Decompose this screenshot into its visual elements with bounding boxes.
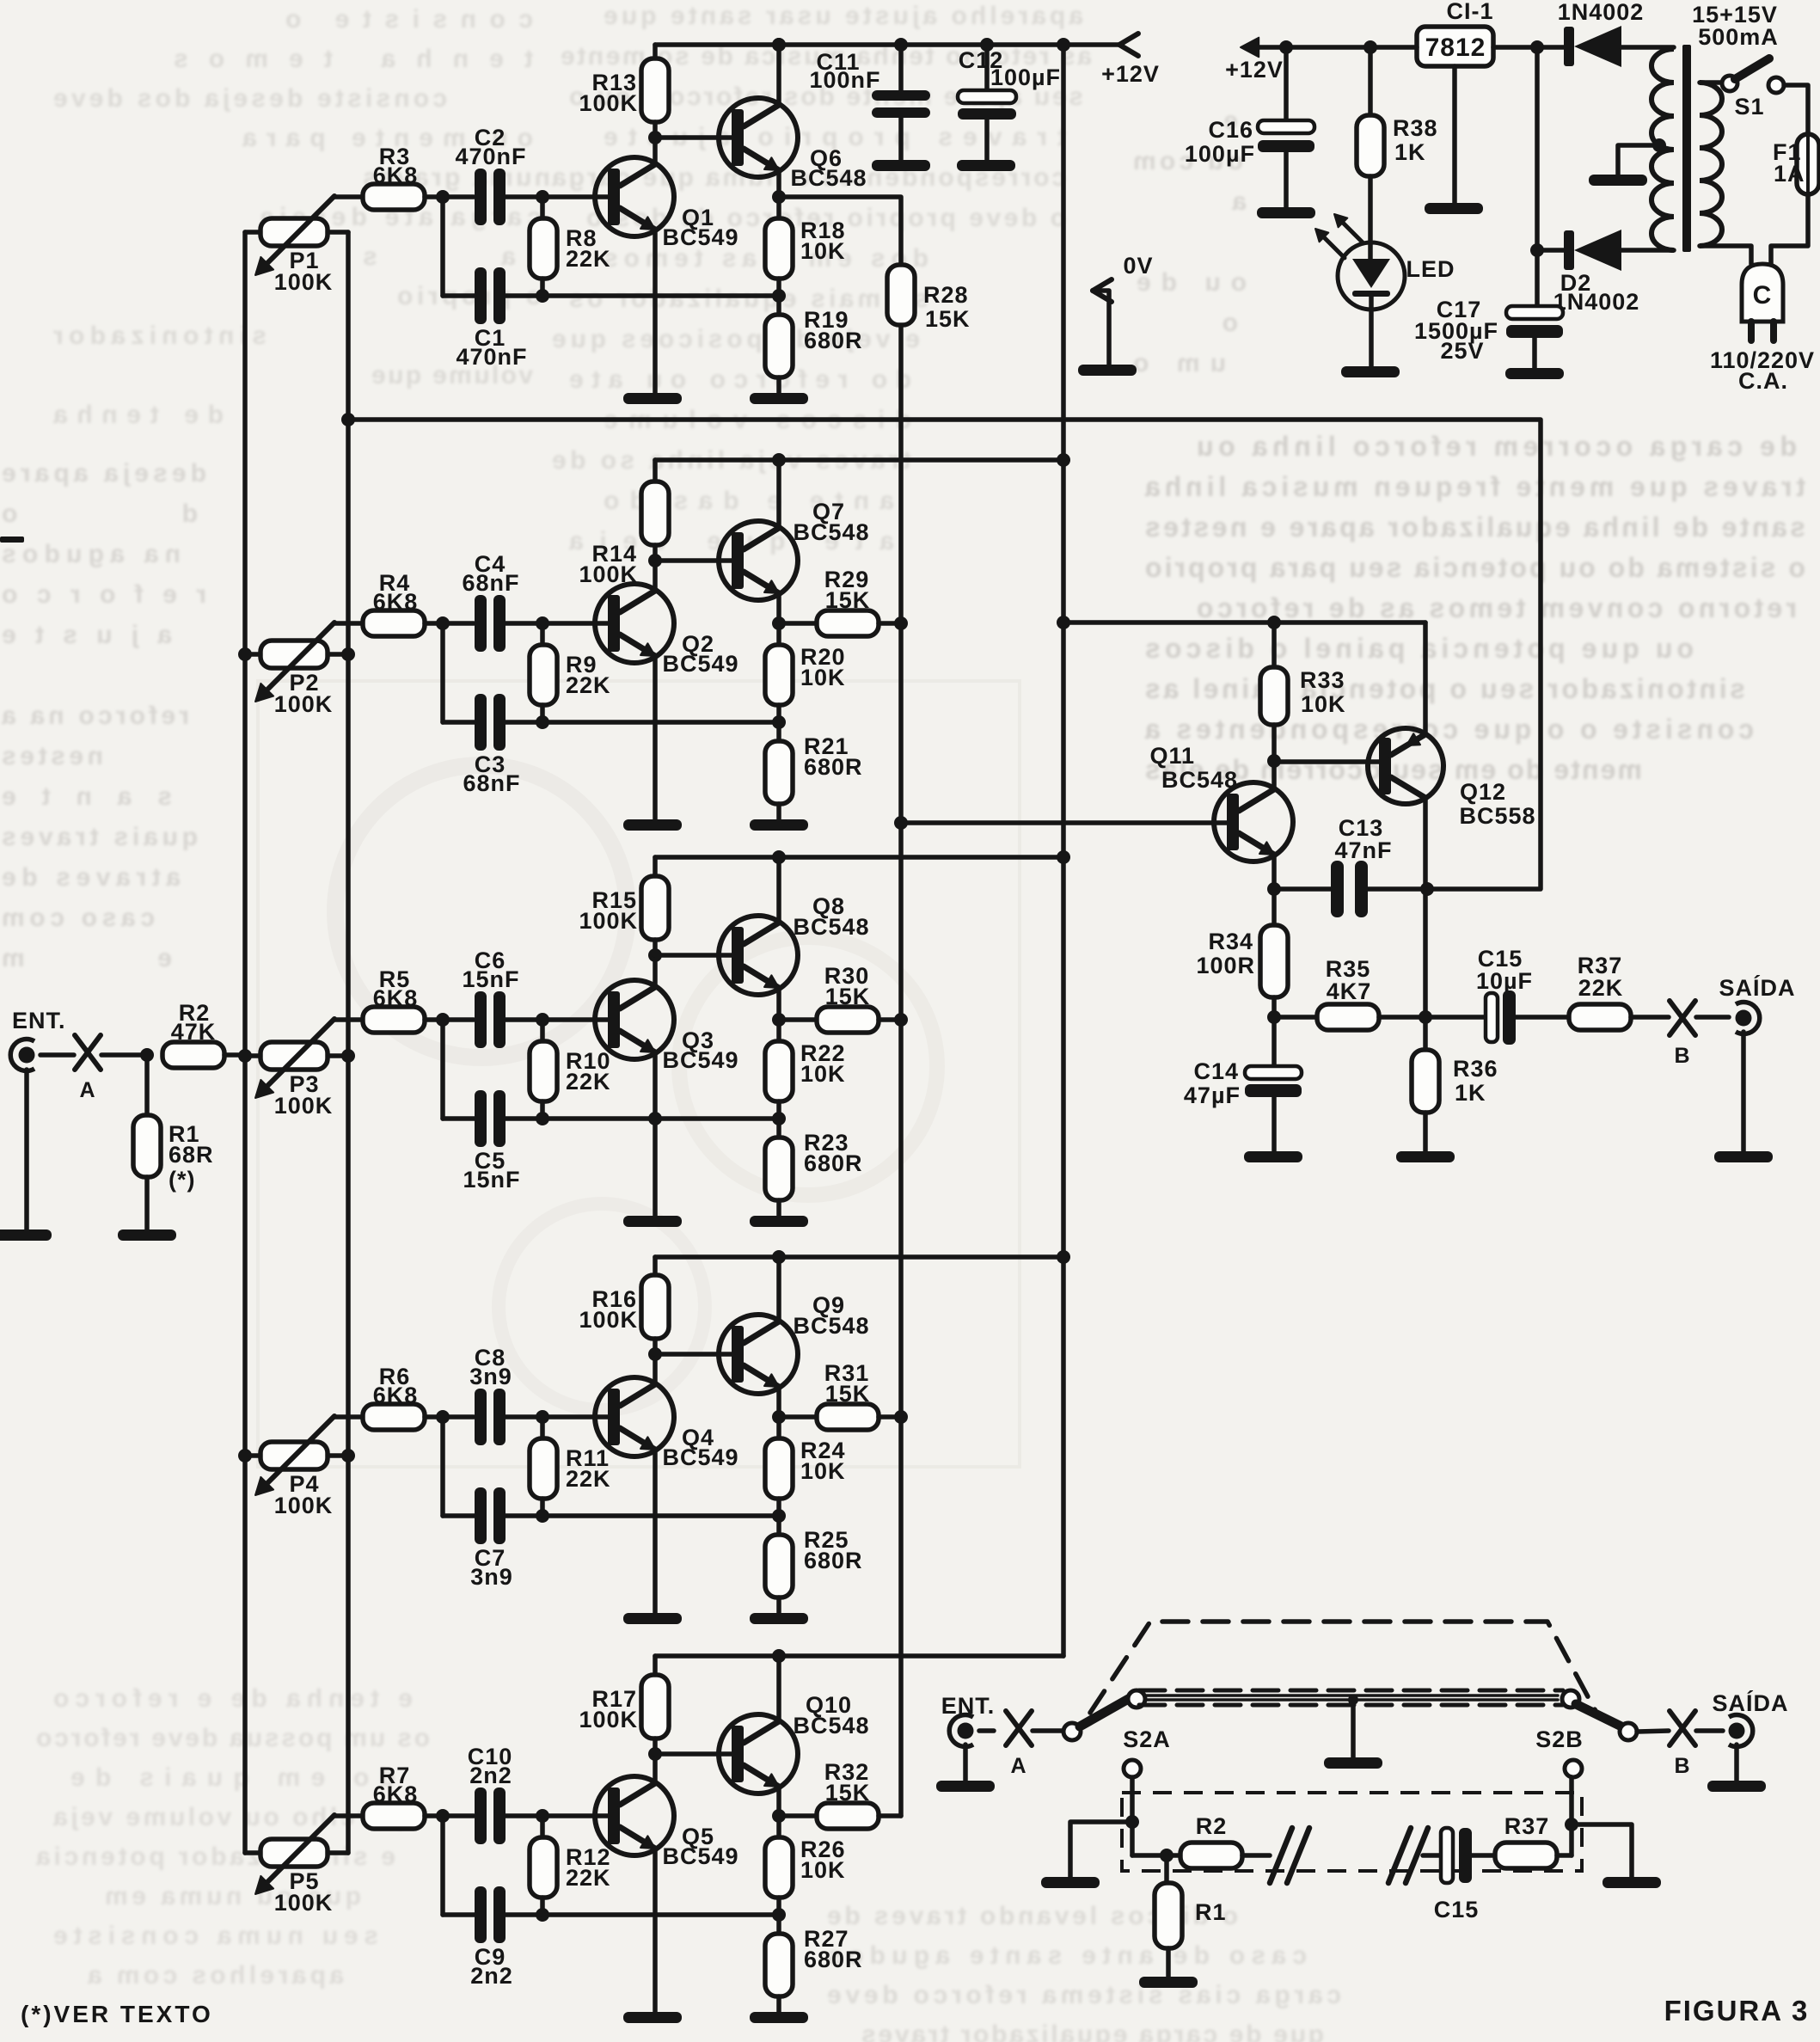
wire right ground branch [1572, 1824, 1632, 1877]
transistor Q4 BC549 [595, 1377, 674, 1456]
svg-text:100K: 100K [274, 1890, 334, 1916]
svg-text:o: o [1221, 309, 1238, 337]
svg-text:100K: 100K [579, 1707, 638, 1732]
node C/R junction bottom row 4 [536, 1509, 549, 1523]
dashed board outline [1122, 1793, 1582, 1871]
label R10 22K [566, 1048, 611, 1095]
svg-text:(*): (*) [169, 1167, 196, 1193]
resistor R23 680R [765, 1119, 793, 1216]
resistor R11 22K [530, 1417, 557, 1516]
label R27 680R [804, 1926, 863, 1972]
svg-text:quais traves: quais traves [0, 823, 198, 851]
node C13 / Q12 collector [1420, 882, 1434, 896]
label B (bypass) [1674, 1754, 1690, 1778]
label R34 100R [1196, 929, 1255, 978]
potentiometer P4 [245, 1416, 363, 1495]
resistor R37 22K [1569, 1004, 1669, 1030]
wire Q11 collector [1272, 761, 1277, 789]
svg-text:A: A [79, 1078, 95, 1102]
label R19 680R [804, 307, 863, 353]
node collector Q4 [648, 1347, 662, 1361]
node C/R junction bottom row 5 [536, 1908, 549, 1922]
svg-text:C: C [1753, 281, 1773, 310]
label P3 100K [274, 1071, 334, 1119]
svg-text:680R: 680R [804, 1548, 863, 1573]
ground R21 [750, 819, 808, 831]
label LED [1406, 256, 1455, 282]
svg-text:(*)VER TEXTO: (*)VER TEXTO [21, 2001, 213, 2027]
label SAIDA (bypass) [1712, 1689, 1788, 1716]
ground right branch [1602, 1877, 1661, 1888]
label R35 4K7 [1326, 956, 1372, 1004]
ground 0V terminal [1078, 365, 1137, 376]
fuse F1 1A [1797, 134, 1819, 194]
resistor R33 10K [1260, 622, 1288, 761]
svg-text:C15: C15 [1434, 1897, 1480, 1922]
label R38 1K [1393, 115, 1438, 165]
resistor R34 100R [1260, 889, 1288, 1017]
svg-text:10K: 10K [800, 1857, 846, 1883]
input jack ENT. [10, 1039, 74, 1071]
capacitor C1 470nF [443, 267, 542, 324]
transistor Q12 BC558 [1368, 728, 1443, 804]
svg-text:C.A.: C.A. [1738, 368, 1788, 394]
svg-text:FIGURA 3: FIGURA 3 [1664, 1995, 1810, 2027]
label Q5 BC549 [662, 1824, 738, 1869]
node C/R junction top row 4 [536, 1410, 549, 1424]
ground coupling mid [1324, 1695, 1382, 1769]
svg-text:100K: 100K [579, 90, 638, 116]
ground C11 [872, 160, 930, 171]
label C10 [468, 1744, 513, 1788]
ground C14 [1244, 1151, 1302, 1162]
wire 7812 input [1493, 45, 1570, 50]
wire base Q9 [655, 1352, 732, 1357]
label R30 15K [824, 963, 871, 1009]
label D1 1N4002 [1558, 0, 1645, 25]
resistor R1 (bypass) [1155, 1855, 1182, 1977]
diode D2 1N4002 [1537, 230, 1674, 271]
svg-text:500mA: 500mA [1698, 24, 1779, 50]
potentiometer P2 [245, 622, 363, 702]
svg-text:100K: 100K [579, 561, 638, 587]
svg-text:680R: 680R [804, 1150, 863, 1176]
wire feedback row 2 [542, 720, 779, 725]
resistor R16 100K [641, 1257, 669, 1354]
ground R1 [118, 1229, 176, 1241]
node rail row 4 on +12V vertical [1057, 1250, 1070, 1264]
label R8 22K [566, 225, 611, 272]
node S2B ground branch [1565, 1818, 1578, 1831]
label Q1 BC549 [662, 205, 738, 250]
label +12V supply [1225, 57, 1284, 83]
resistor R25 680R [765, 1516, 793, 1613]
svg-text:S2B: S2B [1535, 1726, 1584, 1752]
wire left ground branch [1070, 1822, 1132, 1877]
resistor R8 22K [530, 197, 557, 296]
svg-text:15K: 15K [825, 1381, 871, 1407]
node feedback takeoff on bus [341, 413, 355, 426]
resistor R7 6K8 [363, 1803, 474, 1829]
svg-text:7812: 7812 [1425, 34, 1486, 62]
IC CI-1 7812 regulator [1417, 27, 1493, 66]
resistor R36 1K [1412, 1017, 1439, 1151]
label C16 100uF [1185, 117, 1255, 167]
wire Q6 emitter [776, 170, 781, 197]
label R9 22K [566, 652, 611, 698]
svg-text:15nF: 15nF [463, 1167, 520, 1193]
wire Q12 base [1274, 759, 1379, 764]
svg-text:1K: 1K [1394, 139, 1426, 165]
svg-text:100µF: 100µF [1185, 141, 1255, 167]
node Q7 emitter [772, 616, 786, 630]
svg-text:68R: 68R [169, 1142, 214, 1168]
node Q6 collector on rail [772, 38, 786, 52]
node 7812 input [1530, 40, 1544, 54]
capacitor C16 100uF [1258, 47, 1314, 207]
wire Q6 collector [776, 45, 781, 105]
resistor R35 4K7 [1274, 1004, 1425, 1030]
label Q12 BC558 [1459, 779, 1535, 829]
label R31 15K [824, 1360, 871, 1407]
potentiometer P3 [245, 1019, 363, 1098]
label C8 [469, 1345, 512, 1389]
switch S2A [1063, 1690, 1145, 1777]
svg-text:22K: 22K [1578, 975, 1624, 1001]
svg-text:nestes: nestes [0, 742, 103, 770]
svg-text:BC549: BC549 [662, 651, 738, 677]
resistor R29 15K [779, 610, 901, 636]
node pot P3 right on feedback bus [341, 1049, 355, 1063]
node rail row 3 on +12V vertical [1057, 850, 1070, 864]
transistor Q10 BC548 [719, 1714, 798, 1794]
svg-text:S2A: S2A [1123, 1726, 1171, 1752]
node collector Q1 [648, 131, 662, 144]
label R12 22K [566, 1844, 611, 1891]
resistor R12 22K [530, 1816, 557, 1915]
resistor R19 680R [765, 296, 793, 393]
label C11 100nF [809, 49, 880, 93]
node feedback row 5 [772, 1908, 786, 1922]
svg-text:BC549: BC549 [662, 1047, 738, 1073]
wire +12V top rail [655, 42, 1119, 47]
wire Q7 emitter [776, 593, 781, 623]
svg-text:Q11: Q11 [1149, 743, 1195, 769]
wire base Q2 [542, 621, 608, 626]
capacitor C11 100nF [872, 45, 930, 160]
label T1 15+15V 500mA [1692, 2, 1779, 50]
svg-text:R38: R38 [1393, 115, 1438, 141]
ground SAIDA jack (bypass) [1707, 1745, 1766, 1792]
node R7/C junction [436, 1809, 450, 1915]
svg-text:15K: 15K [825, 984, 871, 1009]
label R14 100K [579, 541, 638, 587]
svg-text:carga cias sistema reforco dev: carga cias sistema reforco deve [825, 1981, 1341, 2009]
wire Q4 emitter [653, 1450, 658, 1613]
svg-text:15K: 15K [925, 306, 971, 332]
label C15 10uF [1476, 946, 1533, 994]
svg-text:R2: R2 [1196, 1813, 1228, 1839]
svg-text:3n9: 3n9 [469, 1364, 512, 1389]
output jack SAIDA [1736, 1003, 1760, 1034]
capacitor C12 100uF [958, 45, 1016, 160]
svg-text:1N4002: 1N4002 [1553, 289, 1640, 315]
node C/R junction bottom row 2 [536, 715, 549, 729]
svg-text:um o: um o [1131, 349, 1226, 377]
node feedback row 3 [772, 1112, 786, 1125]
resistor R15 100K [641, 857, 669, 955]
svg-text:BC549: BC549 [662, 1843, 738, 1869]
ground ENT jack (bypass) [936, 1745, 995, 1792]
svg-text:+12V: +12V [1101, 61, 1160, 87]
output jack SAIDA (bypass) [1729, 1715, 1753, 1747]
AC plug [1742, 264, 1783, 340]
label C12 100uF [959, 47, 1061, 90]
svg-text:1N4002: 1N4002 [1558, 0, 1645, 25]
label R33 10K [1300, 667, 1346, 717]
svg-text:R36: R36 [1453, 1056, 1498, 1082]
label R1 68R (*) [169, 1121, 214, 1193]
ground Q5 emitter [623, 2012, 682, 2023]
node input/R1 [140, 1048, 154, 1062]
label Q3 BC549 [662, 1027, 738, 1073]
resistor R26 10K [765, 1816, 793, 1915]
label R28 15K [923, 282, 971, 332]
svg-text:4K7: 4K7 [1327, 978, 1372, 1004]
svg-text:BC549: BC549 [662, 224, 738, 250]
label R23 680R [804, 1130, 863, 1176]
resistor R1 68R [133, 1055, 161, 1229]
svg-text:na agudos: na agudos [0, 540, 181, 568]
svg-text:10K: 10K [800, 665, 846, 690]
wire S1 to fuse [1784, 85, 1808, 134]
svg-text:+12V: +12V [1225, 57, 1284, 83]
svg-text:retorno convem temos as de ref: retorno convem temos as de reforco [1195, 592, 1797, 623]
node R3/C junction [436, 190, 450, 296]
svg-text:47K: 47K [171, 1019, 217, 1045]
svg-text:2n2: 2n2 [469, 1763, 512, 1788]
wire Q2 collector [653, 561, 658, 591]
label ENT. (bypass) [941, 1693, 996, 1719]
svg-text:10K: 10K [1301, 691, 1346, 717]
ground R1 (bypass) [1139, 1977, 1198, 1988]
resistor R6 6K8 [363, 1404, 474, 1430]
wire base Q5 [542, 1813, 608, 1818]
svg-text:BC548: BC548 [790, 165, 867, 191]
svg-text:R33: R33 [1300, 667, 1345, 693]
label R11 22K [566, 1445, 611, 1492]
svg-text:100K: 100K [274, 1493, 334, 1518]
svg-text:do reforco ou ate: do reforco ou ate [567, 365, 911, 394]
svg-text:os um possua deve reforco: os um possua deve reforco [34, 1724, 430, 1752]
svg-text:100µF: 100µF [990, 64, 1061, 90]
node feedback row 1 [772, 289, 786, 303]
svg-text:B: B [1674, 1044, 1690, 1068]
node R30 on summing bus [894, 1013, 908, 1027]
wire base Q7 [655, 558, 732, 563]
wire break marks right [1388, 1828, 1428, 1883]
svg-text:100nF: 100nF [809, 67, 880, 93]
svg-text:25V: 25V [1440, 338, 1484, 364]
svg-text:22K: 22K [566, 1865, 611, 1891]
svg-text:aparelhos com a: aparelhos com a [86, 1961, 344, 1990]
svg-text:10K: 10K [800, 238, 846, 264]
break point A (bypass) [1006, 1711, 1032, 1745]
wire +12V distribution vertical [1061, 45, 1066, 1656]
node R4/C junction [436, 616, 450, 722]
node pot P2 right on feedback bus [341, 647, 355, 661]
wire Q4 collector [653, 1354, 658, 1384]
wire summing bus vertical [898, 325, 904, 1816]
svg-text:470nF: 470nF [456, 344, 527, 370]
resistor R10 22K [530, 1020, 557, 1119]
mechanical coupling dashed link [1090, 1622, 1596, 1713]
svg-text:15K: 15K [825, 1780, 871, 1806]
node bus tap Q11 [894, 816, 908, 830]
label Q8 BC548 [793, 893, 869, 940]
wire S2B to B [1637, 1731, 1669, 1732]
node Q10 emitter [772, 1809, 786, 1823]
label R7 6K8 [373, 1763, 419, 1807]
wire Q12 collector [1423, 799, 1428, 1017]
label R5 6K8 [373, 966, 419, 1011]
node Q6 emitter [772, 190, 786, 204]
potentiometer P1 [245, 196, 363, 275]
wire Q10 emitter [776, 1787, 781, 1816]
label C14 47uF [1184, 1058, 1241, 1108]
svg-text:22K: 22K [566, 672, 611, 698]
label C4 [462, 551, 519, 596]
label Q11 BC548 [1149, 743, 1238, 793]
label R32 15K [824, 1759, 871, 1806]
resistor R20 10K [765, 623, 793, 722]
wire +12V rail row 5 [655, 1653, 1063, 1659]
label R29 15K [824, 567, 871, 613]
label R21 680R [804, 733, 863, 780]
node Q8 collector on rail [772, 850, 786, 864]
label P2 100K [274, 670, 334, 717]
label R26 10K [800, 1837, 846, 1883]
capacitor C17 1500uF 25V [1506, 250, 1563, 368]
svg-text:15K: 15K [825, 587, 871, 613]
resistor R4 6K8 [363, 610, 474, 636]
label R13 100K [579, 70, 638, 116]
svg-text:traves que mente frequen music: traves que mente frequen musica linha [1143, 471, 1805, 502]
node pot P3 left on input bus [238, 1049, 252, 1063]
capacitor C10 2n2 [475, 1788, 542, 1844]
svg-text:BC548: BC548 [793, 914, 869, 940]
label FIGURA 3 [1664, 1995, 1810, 2027]
switch S1 [1700, 58, 1784, 93]
label A [79, 1078, 95, 1102]
resistor R21 680R [765, 722, 793, 819]
label +12V (rail) [1101, 61, 1160, 87]
svg-text:680R: 680R [804, 754, 863, 780]
terminal +12V arrow (rail) [1119, 34, 1138, 56]
node R31 on summing bus [894, 1410, 908, 1424]
svg-text:47µF: 47µF [1184, 1082, 1241, 1108]
wire +12V branch to buffer [1063, 620, 1425, 625]
wire R37 to S2B lower [1557, 1777, 1572, 1855]
node pot P4 left on input bus [238, 1449, 252, 1463]
svg-text:100K: 100K [274, 269, 334, 295]
label D2 1N4002 [1553, 270, 1640, 315]
wire summing bus to Q11 base [901, 820, 1227, 825]
svg-text:e veja de posicoes que: e veja de posicoes que [550, 325, 920, 353]
node C11 on rail [894, 38, 908, 52]
svg-text:e sintonizador potencia: e sintonizador potencia [34, 1843, 395, 1871]
ground left branch [1041, 1877, 1100, 1888]
label R2 47K [171, 1000, 217, 1045]
wire feedback row 4 [542, 1513, 779, 1518]
transistor Q7 BC548 [719, 521, 798, 600]
svg-text:470nF: 470nF [455, 144, 526, 169]
resistor R31 15K [779, 1404, 901, 1430]
potentiometer P5 [245, 1815, 363, 1894]
svg-text:S1: S1 [1734, 94, 1764, 120]
node collector Q3 [648, 948, 662, 962]
svg-text:R1: R1 [1195, 1899, 1227, 1925]
label R37 (bypass) [1504, 1813, 1550, 1839]
label C2 [455, 125, 526, 169]
wire Q12 emitter to +12V [1423, 622, 1428, 733]
capacitor C6 15nF [475, 991, 542, 1048]
switch S2B [1562, 1690, 1637, 1777]
resistor R5 6K8 [363, 1007, 474, 1033]
wire input bus (left vertical bus line) [242, 232, 248, 1853]
break point A [75, 1035, 101, 1070]
svg-text:680R: 680R [804, 1947, 863, 1972]
node feedback row 4 [772, 1509, 786, 1523]
terminal 0V [1093, 279, 1112, 365]
label C9 [470, 1944, 513, 1989]
label C5 [463, 1148, 520, 1193]
wire S2A lower to R2 [1132, 1777, 1180, 1855]
svg-text:47nF: 47nF [1334, 837, 1392, 863]
label 110/220V C.A. [1710, 347, 1815, 394]
node +12V vertical on rail1 [1057, 38, 1070, 52]
svg-text:B: B [1674, 1754, 1690, 1778]
ground C17 [1505, 368, 1564, 379]
svg-text:68nF: 68nF [462, 570, 519, 596]
ground R23 [750, 1216, 808, 1227]
resistor R9 22K [530, 623, 557, 722]
label R3 6K8 [373, 144, 419, 188]
ground R25 [750, 1613, 808, 1624]
label R1 (bypass) [1195, 1899, 1227, 1925]
svg-text:10µF: 10µF [1476, 968, 1533, 994]
wire Q3 collector [653, 955, 658, 987]
ground LED [1341, 366, 1400, 377]
label P5 100K [274, 1868, 334, 1916]
svg-text:BC558: BC558 [1459, 803, 1535, 829]
wire Q7 collector [776, 460, 781, 528]
ground C16 [1257, 207, 1315, 218]
node R1/R2 [1160, 1849, 1174, 1862]
ground R36 [1396, 1151, 1455, 1162]
transistor Q5 BC549 [595, 1776, 674, 1855]
node feedback row 2 [772, 715, 786, 729]
label R2 (bypass) [1196, 1813, 1228, 1839]
terminal +12V supply output [1241, 38, 1417, 58]
node C/R junction top row 5 [536, 1809, 549, 1823]
label A (bypass) [1010, 1754, 1026, 1778]
wire Q5 collector [653, 1754, 658, 1783]
wire base Q10 [655, 1751, 732, 1757]
label R6 6K8 [373, 1364, 419, 1408]
wire feedback row 3 [542, 1112, 779, 1125]
wire feedback row 5 [542, 1912, 779, 1917]
